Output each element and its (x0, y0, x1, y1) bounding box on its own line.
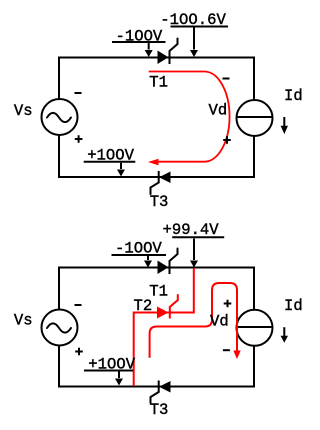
svg-text:Vd: Vd (210, 313, 229, 331)
svg-text:T1: T1 (149, 74, 168, 92)
svg-text:Id: Id (284, 297, 303, 315)
svg-text:T3: T3 (150, 193, 169, 211)
svg-text:Vd: Vd (209, 102, 228, 120)
svg-text:Vs: Vs (14, 312, 33, 330)
svg-text:T3: T3 (150, 401, 169, 419)
svg-text:Id: Id (284, 87, 303, 105)
svg-text:Vs: Vs (14, 102, 33, 120)
svg-text:T2: T2 (134, 297, 153, 315)
